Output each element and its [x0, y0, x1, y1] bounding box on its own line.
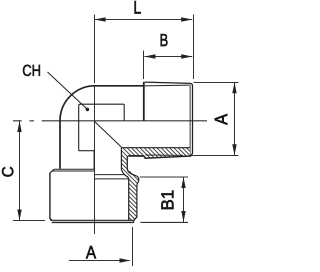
label B1 (rotated)	[161, 191, 173, 209]
arrow A-right bottom	[232, 144, 236, 155]
arrow A-bottom right	[120, 258, 131, 262]
dimension L	[95, 15, 194, 80]
collar top-left chamfer	[50, 169, 54, 173]
dimension C	[13, 121, 45, 221]
bore inner contour (section)	[121, 148, 190, 221]
male end face	[190, 83, 192, 156]
hex flats outline	[79, 104, 125, 151]
collar (socket) external	[50, 169, 137, 222]
dimension A right	[190, 82, 238, 155]
male port external top half	[144, 82, 193, 157]
male port outer bottom (section)	[128, 155, 190, 158]
dimension A bottom	[69, 227, 133, 266]
male end chamfer line	[189, 85, 191, 157]
section hatch area (bore walls)	[121, 148, 190, 221]
female wall outer contour (section)	[127, 156, 139, 220]
collar top edge lower	[51, 170, 94, 172]
centerline horizontal (male port axis)	[13, 120, 207, 122]
collar bottom face outer	[52, 221, 134, 223]
female wall inner jog and thread line	[121, 170, 128, 221]
label A bottom	[86, 246, 96, 258]
arrow B right	[181, 54, 192, 58]
dimension B	[144, 51, 193, 80]
hex flat edge at axis (section side)	[93, 151, 95, 170]
male port base edge	[143, 82, 145, 121]
body outline (elbow external view)	[60, 86, 144, 169]
section break diagonal	[95, 122, 122, 148]
dimension B1	[140, 177, 188, 222]
label A right (rotated)	[215, 114, 227, 125]
arrow C top	[17, 121, 21, 132]
collar top edge upper	[54, 168, 94, 170]
male thread crest top	[145, 82, 191, 83]
arrow A-right top	[232, 82, 236, 93]
arrow L left	[95, 17, 106, 21]
arrow L right	[181, 17, 192, 21]
arrow B1 bottom	[181, 211, 185, 222]
label B	[161, 34, 168, 46]
label L	[135, 1, 141, 13]
collar bottom face inner	[50, 219, 134, 221]
CH leader	[48, 72, 88, 109]
CH leader dot	[86, 108, 90, 112]
centerline vertical (female port axis / L extension)	[94, 15, 96, 235]
collar left edge	[50, 173, 52, 220]
thread shoulder lines (section)	[95, 175, 128, 179]
male thread root top	[145, 84, 190, 87]
collar bottom right chamfer	[134, 217, 137, 222]
CH label	[23, 65, 40, 76]
arrow B left	[144, 54, 155, 58]
arrow B1 top	[181, 177, 185, 188]
arrow C bottom	[17, 210, 21, 221]
label C (rotated)	[2, 167, 13, 177]
